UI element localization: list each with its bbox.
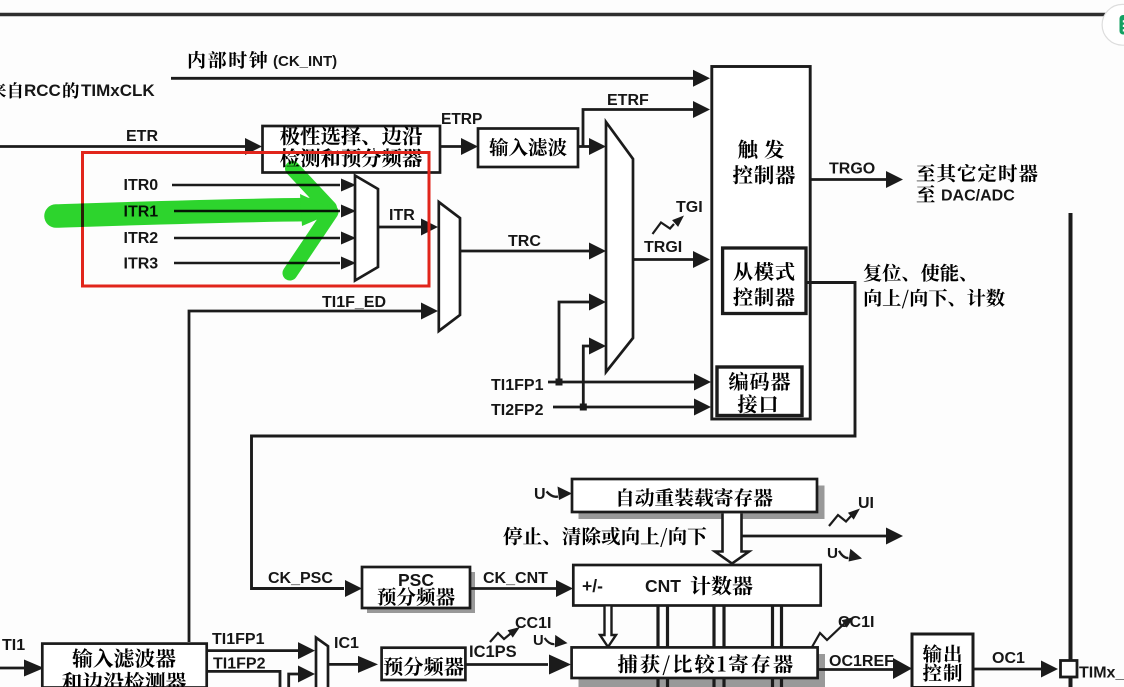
- wire TI1F_ED from input filter up to TRC mux: [189, 311, 421, 642]
- wire TI2FP1 from channel 2 into IC1 mux: [289, 674, 299, 687]
- svg-text:PSC: PSC: [398, 570, 434, 590]
- mux: IC1 input selector (bottom trapezoid): [316, 638, 328, 687]
- svg-text:OC1: OC1: [992, 650, 1025, 667]
- svg-text:IC1PS: IC1PS: [469, 643, 517, 661]
- svg-text:UI: UI: [858, 495, 874, 512]
- wire bus pair 2 CNT-capture: [712, 607, 715, 648]
- wire ETR from left edge: [0, 145, 246, 148]
- block: input filter & edge detector 输入滤波器和边沿检测器: [42, 644, 206, 687]
- svg-text:ITR: ITR: [389, 207, 415, 224]
- svg-text:TI1: TI1: [2, 637, 25, 654]
- mux: trigger input selector (big trapezoid): [606, 122, 633, 372]
- svg-text:TIMx_C: TIMx_C: [1079, 665, 1124, 682]
- svg-text:CK_PSC: CK_PSC: [268, 570, 333, 587]
- text 至其它定时器 / 至 DAC/ADC: [917, 164, 935, 181]
- block: auto-reload register 自动重装载寄存器 (with shadow): [579, 486, 825, 520]
- node TIMxCLK: label 来自RCC的TIMxCLK: [0, 82, 6, 98]
- block: PSC prescaler PSC 预分频器 (with shadow): [367, 572, 475, 613]
- page top border line: [0, 13, 1106, 16]
- svg-text:OC1REF: OC1REF: [829, 653, 894, 670]
- block: capture/compare register 捕获/比较1寄存器 (with shadow): [579, 654, 826, 687]
- wire bus pair 1 CNT-capture: [656, 607, 659, 648]
- wire hollow down-arrow from auto-reload to CNT: [715, 514, 749, 564]
- wire TI1FP1 into IC1 mux: [207, 649, 299, 652]
- svg-text:+/-: +/-: [582, 576, 603, 596]
- svg-text:TGI: TGI: [676, 199, 703, 216]
- svg-text:U: U: [827, 545, 838, 562]
- svg-text:TRGI: TRGI: [644, 239, 682, 256]
- wire bus segments below capture register: [656, 679, 659, 687]
- wire from slave mode controller down to CK_PSC: [252, 283, 856, 589]
- annotation: red highlight rectangle: [83, 153, 430, 287]
- wire ITR3: [174, 262, 340, 265]
- wire update event output: [741, 535, 886, 538]
- block: polarity selection 极性选择、边沿检测和预分频器: [263, 126, 441, 173]
- wire IC1 into prescaler: [328, 663, 360, 666]
- node U update event into auto-reload register: [534, 486, 572, 503]
- svg-text:TIMxCLK: TIMxCLK: [81, 81, 155, 100]
- wire ETRP arrow: [440, 145, 462, 148]
- block: output control 输出控制: [912, 634, 973, 687]
- text 复位、使能、向上/向下、计数 (slave mode outputs): [864, 264, 882, 282]
- wire TI1 into input filter: [0, 667, 28, 670]
- wire OC1 to pin: [973, 668, 1042, 671]
- svg-text:U: U: [533, 633, 544, 649]
- svg-text:ITR2: ITR2: [124, 230, 159, 247]
- svg-text:TI2FP2: TI2FP2: [491, 402, 544, 419]
- svg-text:ETRP: ETRP: [441, 111, 482, 128]
- mux: TRC selector (trapezoid): [439, 202, 460, 331]
- wire ITR1: [174, 210, 340, 213]
- svg-text:ETR: ETR: [126, 128, 158, 145]
- wire TIMx channel pin rail (right vertical): [1069, 213, 1073, 687]
- wire bus pair 3 CNT-capture: [771, 607, 774, 648]
- wire IC1PS into capture register: [465, 663, 548, 666]
- wire ITR to TRC mux: [378, 226, 421, 229]
- svg-text:(CK_INT): (CK_INT): [273, 53, 337, 70]
- ui: floating circle button with green icon (top-right): [1102, 4, 1124, 45]
- wire ETRF to mux and trigger controller: [578, 145, 594, 148]
- wire ITR0: [172, 184, 340, 187]
- svg-text:CNT: CNT: [645, 576, 681, 596]
- svg-text:ETRF: ETRF: [607, 92, 649, 109]
- svg-text:CC1I: CC1I: [515, 615, 551, 632]
- pin TIMx_CH1 square: [1061, 661, 1078, 678]
- svg-text:RCC: RCC: [24, 81, 61, 100]
- svg-text:CK_CNT: CK_CNT: [483, 570, 548, 587]
- wire TI1FP2 down to channel 2: [207, 671, 280, 687]
- annotation: green hand-drawn arrow: [56, 169, 337, 274]
- svg-text:DAC/ADC: DAC/ADC: [941, 188, 1015, 205]
- wire TRGI into trigger controller: [633, 258, 694, 261]
- svg-text:TI1FP1: TI1FP1: [212, 631, 265, 648]
- text 停止、清除或向上/向下: [503, 527, 522, 546]
- block: input filter 输入滤波: [478, 129, 578, 168]
- block: encoder interface 编码器接口: [717, 367, 802, 416]
- svg-text:TRC: TRC: [508, 233, 541, 250]
- block: prescaler 预分频器 (bottom): [382, 648, 466, 680]
- wire CK_INT underline into trigger controller: [171, 77, 694, 80]
- wire CK_CNT to counter: [470, 587, 556, 590]
- block: controller container box: [712, 67, 810, 420]
- node U event at capture preload: [533, 633, 568, 649]
- svg-text:ITR3: ITR3: [124, 256, 159, 273]
- svg-text:U: U: [534, 486, 546, 503]
- block: slave mode controller 从模式控制器: [723, 248, 806, 314]
- svg-text:TI1F_ED: TI1F_ED: [322, 294, 386, 311]
- wire hollow down-arrow CNT to capture register: [600, 607, 616, 648]
- wire ITR2: [174, 237, 340, 240]
- svg-text:TI1FP2: TI1FP2: [213, 656, 266, 673]
- svg-text:TRGO: TRGO: [829, 161, 875, 178]
- node U event below update wire: [827, 545, 864, 564]
- block label 触发控制器 (trigger controller): [738, 140, 757, 159]
- block: counter CNT 计数器: [573, 565, 820, 606]
- svg-text:ITR0: ITR0: [124, 177, 159, 194]
- mux: ITR selector (small trapezoid): [355, 176, 378, 281]
- svg-text:IC1: IC1: [334, 635, 359, 652]
- wire OC1REF into output control: [818, 668, 895, 671]
- wire TRC to big mux: [460, 250, 590, 253]
- wire TRGO output: [810, 178, 886, 181]
- svg-text:TI1FP1: TI1FP1: [491, 377, 544, 394]
- node CK_INT: label 内部时钟 (CK_INT): [189, 51, 205, 69]
